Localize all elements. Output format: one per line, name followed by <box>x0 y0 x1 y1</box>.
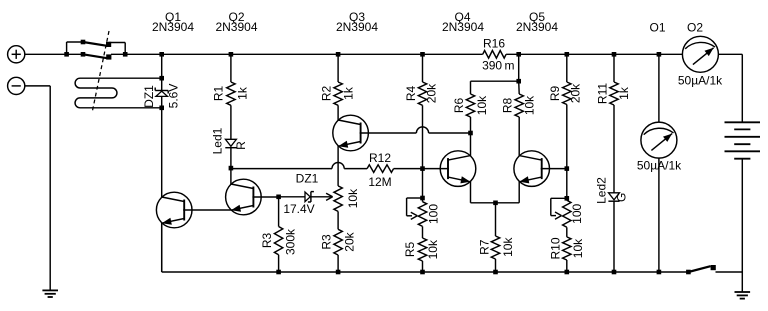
wire <box>230 148 232 185</box>
resistor R4 <box>418 82 426 105</box>
wire <box>230 54 232 82</box>
resistor R12 (12M) <box>367 165 394 173</box>
label R11 <box>595 83 609 104</box>
svg-text:20k: 20k <box>342 231 356 251</box>
svg-text:Led2: Led2 <box>595 177 609 204</box>
svg-text:R10: R10 <box>549 237 563 259</box>
label 50uA/1k <box>678 74 723 88</box>
wire Q4 collector <box>470 133 472 156</box>
label 10k <box>571 238 585 258</box>
label R3 <box>320 234 334 250</box>
node <box>336 52 341 57</box>
label 50uA/1k <box>637 158 682 172</box>
node <box>493 270 498 275</box>
label 2N3904 <box>516 20 558 34</box>
wire <box>613 105 615 193</box>
wiper wrap <box>407 198 423 219</box>
wire <box>566 105 568 201</box>
label R8 <box>501 98 515 114</box>
svg-text:10k: 10k <box>571 238 585 258</box>
svg-text:DZ1: DZ1 <box>296 172 319 186</box>
wire <box>613 201 615 272</box>
svg-text:R1: R1 <box>212 86 226 102</box>
svg-text:R4: R4 <box>404 86 418 102</box>
wire <box>230 105 232 139</box>
label Q2 <box>228 10 244 24</box>
node <box>657 270 662 275</box>
svg-text:DZ1: DZ1 <box>142 85 156 108</box>
potentiometer 100 <box>418 202 426 227</box>
node <box>565 52 570 57</box>
label Led1 <box>211 127 225 154</box>
label 20k <box>425 83 439 103</box>
wire Q5 collector <box>518 117 520 156</box>
wire Q3 base with hop <box>360 127 471 133</box>
resistor R2 <box>334 82 342 105</box>
wire <box>161 96 163 197</box>
node wiper junction <box>420 196 425 201</box>
wire Q4 base <box>423 168 450 170</box>
wire Q1 emitter <box>161 223 163 272</box>
svg-text:5.6V: 5.6V <box>167 84 181 109</box>
node <box>159 106 164 111</box>
svg-text:R7: R7 <box>478 239 492 255</box>
svg-text:300k: 300k <box>284 228 298 255</box>
svg-text:R: R <box>234 141 248 150</box>
switch S1 linkage (dashed) <box>92 31 109 113</box>
wire Q2 base <box>252 196 278 198</box>
label 10k <box>426 239 440 259</box>
svg-text:R3: R3 <box>260 233 274 249</box>
svg-text:R8: R8 <box>501 98 515 114</box>
node <box>612 52 617 57</box>
ground <box>735 292 751 299</box>
node <box>276 270 281 275</box>
zener DZ1 (5.6V) <box>155 88 168 97</box>
terminal - (negative input) <box>8 77 25 94</box>
label 20k <box>568 83 582 103</box>
wire <box>161 54 163 90</box>
resistor R5 (10k) <box>418 238 426 261</box>
zener DZ1 (17.4V) <box>305 192 314 202</box>
resistor R3 (20k) <box>334 229 342 255</box>
wire <box>566 260 568 272</box>
resistor R1 <box>227 82 235 105</box>
label Q1 <box>165 10 181 24</box>
node <box>229 166 234 171</box>
svg-text:50µA/1k: 50µA/1k <box>637 158 682 172</box>
node Q2 base junction <box>276 195 281 200</box>
label 20k <box>342 231 356 251</box>
node <box>420 52 425 57</box>
wire <box>422 261 424 272</box>
wire <box>394 168 423 170</box>
svg-text:10k: 10k <box>475 95 489 115</box>
bimetal heater element <box>75 78 162 108</box>
svg-text:10k: 10k <box>522 95 536 115</box>
svg-text:100: 100 <box>427 204 441 224</box>
potentiometer 100 <box>563 200 571 227</box>
node <box>336 270 341 275</box>
wire <box>658 158 660 272</box>
node <box>159 76 164 81</box>
label O1 <box>649 21 665 35</box>
wiper arrow <box>326 193 333 200</box>
node switch-left <box>64 52 69 57</box>
label 10k <box>346 188 360 208</box>
svg-text:2N3904: 2N3904 <box>442 20 484 34</box>
svg-text:Led1: Led1 <box>211 127 225 154</box>
node <box>420 270 425 275</box>
svg-text:R9: R9 <box>548 86 562 102</box>
label G <box>614 193 628 202</box>
label 2N3904 <box>442 20 484 34</box>
resistor R10 (10k) <box>563 237 571 260</box>
svg-text:1k: 1k <box>617 86 631 100</box>
wire Q4 emitter <box>471 182 520 203</box>
label 1k <box>236 86 250 100</box>
node <box>516 52 521 57</box>
wire <box>613 54 615 82</box>
wire Q5 emitter <box>518 182 520 203</box>
resistor R9 (20k) <box>563 82 571 105</box>
svg-text:2N3904: 2N3904 <box>152 20 194 34</box>
svg-text:1k: 1k <box>236 86 250 100</box>
label 100 <box>427 204 441 224</box>
node wiper junction <box>565 196 570 201</box>
node <box>612 270 617 275</box>
wire <box>422 54 424 82</box>
meter O2 <box>682 36 718 72</box>
switch S1 pole B <box>81 52 112 60</box>
svg-text:R6: R6 <box>452 98 466 114</box>
transistor Q3 <box>333 115 369 151</box>
resistor R8 (10k) <box>515 81 523 117</box>
battery B1 <box>725 122 761 158</box>
svg-text:R16: R16 <box>483 37 505 51</box>
label R5 <box>403 242 417 258</box>
svg-text:100: 100 <box>570 203 584 223</box>
label R3 <box>260 233 274 249</box>
wire <box>278 255 280 272</box>
svg-text:10k: 10k <box>346 188 360 208</box>
node <box>657 52 662 57</box>
label 10k <box>522 95 536 115</box>
resistor R16 (390m) <box>483 51 506 59</box>
wire <box>566 227 568 237</box>
wire <box>422 105 424 201</box>
label 1k <box>617 86 631 100</box>
label Q4 <box>454 10 470 24</box>
node <box>565 270 570 275</box>
svg-text:10k: 10k <box>426 239 440 259</box>
wire <box>658 54 660 122</box>
label 2N3904 <box>215 20 257 34</box>
svg-text:R5: R5 <box>403 242 417 258</box>
label 390m <box>482 59 514 73</box>
transistor Q5 <box>514 151 550 187</box>
label R16 <box>483 37 505 51</box>
label R10 <box>549 237 563 259</box>
resistor R3 (300k) <box>274 227 282 255</box>
node <box>159 52 164 57</box>
meter O1 <box>641 122 677 158</box>
wire Q1 base to Q2 emitter <box>183 209 231 211</box>
node <box>229 52 234 57</box>
led Led1 <box>225 139 236 147</box>
label R12 <box>369 151 391 165</box>
svg-text:R11: R11 <box>595 83 609 104</box>
label 1k <box>341 86 355 100</box>
wiper wrap <box>551 198 567 219</box>
node <box>420 166 425 171</box>
transistor Q2 <box>226 179 262 215</box>
label DZ1 <box>296 172 319 186</box>
terminal + (positive input) <box>8 46 25 63</box>
wire <box>741 159 743 292</box>
wire <box>518 54 520 81</box>
led Led2 <box>608 193 619 201</box>
potentiometer 10k <box>334 186 342 212</box>
wire <box>741 54 743 122</box>
node switch-right <box>123 52 128 57</box>
wire <box>566 54 568 82</box>
svg-text:390 m: 390 m <box>482 59 514 73</box>
transistor Q4 <box>440 151 476 187</box>
label R2 <box>320 86 334 102</box>
label R6 <box>452 98 466 114</box>
wire <box>495 259 497 272</box>
wire <box>279 196 306 198</box>
resistor R7 (10k) <box>491 203 499 259</box>
node emitter rail <box>493 201 498 206</box>
label 5.6V <box>167 84 181 109</box>
wire Q5 base <box>541 168 567 170</box>
label 2N3904 <box>152 20 194 34</box>
svg-text:R3: R3 <box>320 234 334 250</box>
label Q5 <box>529 10 545 24</box>
svg-text:2N3904: 2N3904 <box>336 20 378 34</box>
svg-text:17.4V: 17.4V <box>283 202 314 216</box>
switch S2 <box>686 265 716 274</box>
wire jog to R6 <box>471 81 519 94</box>
svg-text:10k: 10k <box>501 237 515 257</box>
node <box>468 131 473 136</box>
label DZ1 <box>142 85 156 108</box>
wire bottom rail <box>162 223 743 272</box>
wire <box>25 53 83 55</box>
wire <box>422 226 424 238</box>
wire <box>337 211 339 229</box>
wire <box>311 196 333 198</box>
wire R12 net with hop <box>231 163 367 169</box>
wire <box>337 105 339 120</box>
label R <box>234 141 248 150</box>
svg-text:O2: O2 <box>687 21 703 35</box>
svg-text:1k: 1k <box>341 86 355 100</box>
label R7 <box>478 239 492 255</box>
label 12M <box>368 175 391 189</box>
svg-text:12M: 12M <box>368 175 391 189</box>
wire <box>337 54 339 82</box>
svg-text:20k: 20k <box>568 83 582 103</box>
label 100 <box>570 203 584 223</box>
resistor R11 (1k) <box>610 82 618 105</box>
label 10k <box>475 95 489 115</box>
wire <box>470 117 472 133</box>
node <box>516 79 521 84</box>
node Q5 base junction <box>565 166 570 171</box>
wire <box>337 255 339 272</box>
label O2 <box>687 21 703 35</box>
resistor R6 (10k) <box>466 94 474 117</box>
switch S1 pole A <box>67 40 126 55</box>
label 300k <box>284 228 298 255</box>
wire <box>25 86 50 291</box>
label 10k <box>501 237 515 257</box>
label R1 <box>212 86 226 102</box>
label Led2 <box>595 177 609 204</box>
svg-text:20k: 20k <box>425 83 439 103</box>
transistor Q1 <box>156 192 192 228</box>
svg-text:2N3904: 2N3904 <box>215 20 257 34</box>
svg-text:G: G <box>614 193 628 202</box>
wire Q3 emitter <box>337 146 339 186</box>
label R4 <box>404 86 418 102</box>
ground <box>42 290 58 297</box>
label Q3 <box>349 10 365 24</box>
label R9 <box>548 86 562 102</box>
svg-text:R12: R12 <box>369 151 391 165</box>
svg-text:2N3904: 2N3904 <box>516 20 558 34</box>
svg-text:R2: R2 <box>320 86 334 102</box>
svg-text:O1: O1 <box>649 21 665 35</box>
label 17.4V <box>283 202 314 216</box>
label 2N3904 <box>336 20 378 34</box>
wire <box>278 197 280 227</box>
wire top rail <box>111 53 742 55</box>
svg-text:50µA/1k: 50µA/1k <box>678 74 723 88</box>
